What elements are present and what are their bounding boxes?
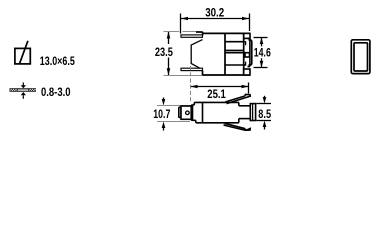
dim 30.2 line with arrows [181,17,249,21]
svg-text:10.7: 10.7 [153,107,170,121]
terminal block slots [225,42,246,65]
svg-text:25.1: 25.1 [207,87,226,101]
rocker profile [191,40,202,69]
bushing [239,106,251,119]
bottom lip [181,68,203,70]
ext line left of 25.1 (gray dash) [190,66,192,103]
body bottom edge [203,74,251,76]
panel cutout symbol: square with diagonal [15,41,30,64]
ext lines of 14.6 [254,37,268,39]
svg-text:0.8-3.0: 0.8-3.0 [41,85,71,99]
dim 25.1 line with arrows [191,85,249,89]
top wing [226,95,251,104]
svg-text:14.6: 14.6 [254,46,271,60]
body right edge [243,33,245,75]
terminal root notches [244,42,246,65]
switch body outline [196,32,250,75]
collar line [202,102,204,122]
ext line right of 25.1 [248,83,250,94]
button body with hole [181,106,193,119]
top terminal tab [244,33,250,38]
ext line top of 23.5 (gray) [164,31,180,33]
svg-text:8.5: 8.5 [258,107,271,121]
panel thickness symbol: hatched bar [10,88,37,91]
ext lines of 10.7 [157,105,190,107]
top lip [181,35,203,37]
dim 10.7: top arrow [162,98,166,106]
ext line bottom of 23.5 (gray) [164,75,204,77]
dim 14.6 arrows [260,38,264,68]
svg-text:13.0×6.5: 13.0×6.5 [40,54,75,68]
svg-text:23.5: 23.5 [155,45,173,59]
clip (middle terminal side view) [248,38,252,66]
dim 8.5: top arrow [263,96,267,104]
ext line left of 30.2 [180,14,182,34]
neck [191,102,196,122]
step lip to body bottom [202,71,204,75]
body top edge [203,32,250,34]
svg-text:30.2: 30.2 [205,6,224,20]
arrow above bar [21,83,26,89]
main body of bottom drawing [194,102,239,122]
dim 10.7: bottom arrow [162,122,166,131]
ext line right of 30.2 [249,14,251,32]
step from lip to body top [202,32,204,35]
arrow below bar [21,92,26,99]
hole [186,111,190,115]
bottom terminal tab [244,69,250,75]
dim 8.5: bottom arrow [263,121,267,130]
ext lines of 8.5 [257,103,272,105]
dim 23.5 vertical line with arrows [167,32,171,76]
bottom wing [224,123,251,130]
button tip [179,107,181,117]
middle terminal tab [245,53,250,57]
rings [250,104,255,121]
internal divider [224,33,226,75]
